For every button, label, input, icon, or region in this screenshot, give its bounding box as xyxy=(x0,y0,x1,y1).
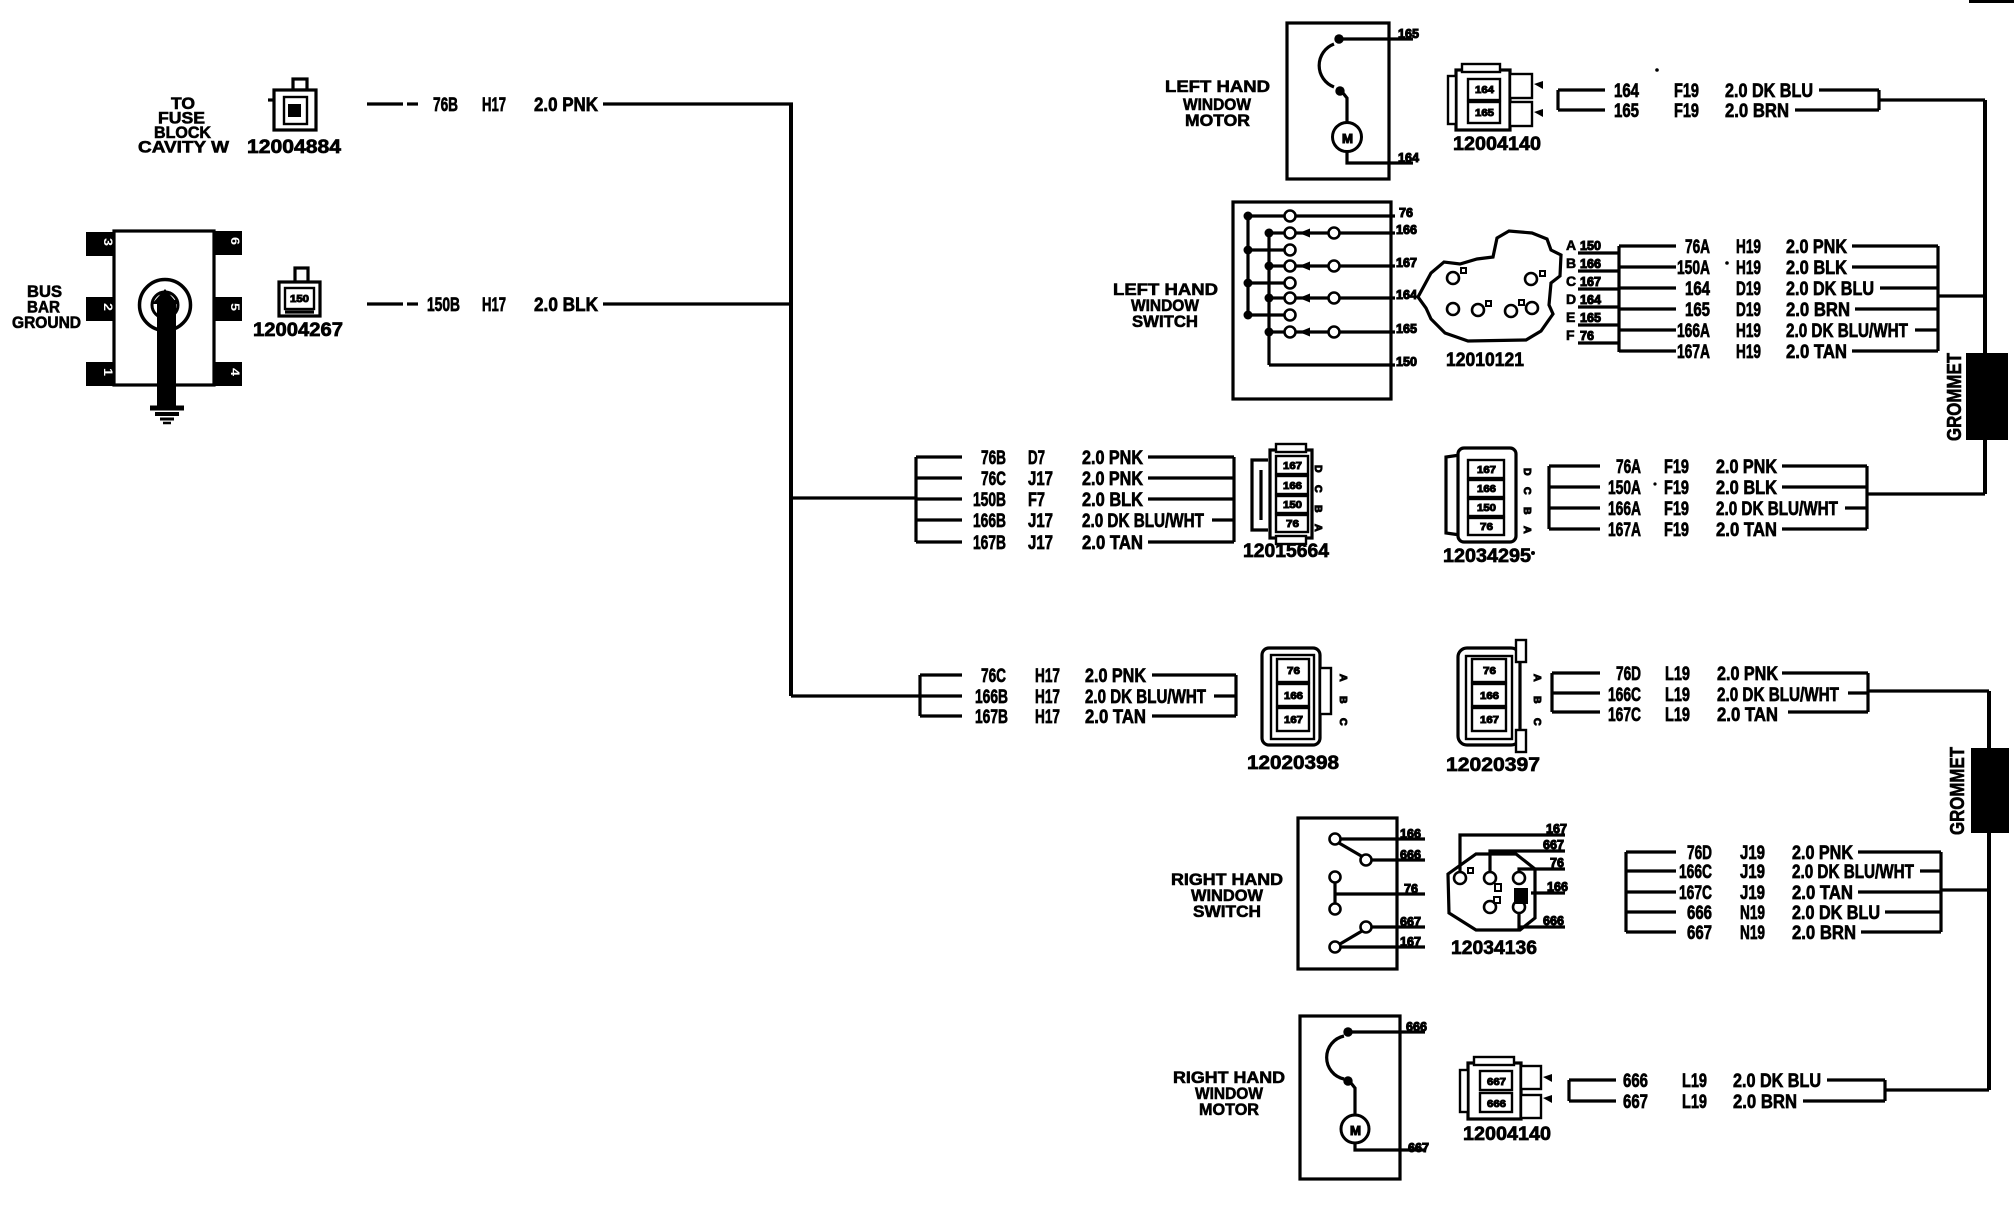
wire 150A F19 2.0 BLK xyxy=(1608,478,1867,499)
svg-text:H17: H17 xyxy=(1035,687,1060,708)
wire 165 F19 2.0 BRN xyxy=(1614,101,1879,122)
svg-text:L19: L19 xyxy=(1665,705,1690,726)
wire 164 D19 2.0 DK BLU xyxy=(1685,279,1938,300)
svg-text:2.0 BRN: 2.0 BRN xyxy=(1725,101,1789,122)
grommet lower xyxy=(1947,747,2009,835)
bus bar terminal 4 xyxy=(213,362,242,386)
svg-text:N19: N19 xyxy=(1740,903,1765,924)
wire 166C J19 2.0 DK BLU/WHT xyxy=(1679,862,1941,883)
svg-text:2.0 PNK: 2.0 PNK xyxy=(534,95,598,116)
svg-text:F19: F19 xyxy=(1664,457,1689,478)
svg-text:2.0 DK BLU: 2.0 DK BLU xyxy=(1733,1071,1821,1092)
wire 165 D19 2.0 BRN xyxy=(1685,300,1938,321)
svg-text:2.0 PNK: 2.0 PNK xyxy=(1082,469,1143,490)
svg-text:667: 667 xyxy=(1408,1140,1429,1155)
wire 4-way bracket to right trunk xyxy=(1867,492,1985,495)
svg-text:N19: N19 xyxy=(1740,923,1765,944)
wire 150B F7 2.0 BLK xyxy=(973,490,1234,511)
connector 12004884 xyxy=(247,79,341,158)
wire collector to lower right trunk bottom xyxy=(1885,1088,1989,1091)
svg-text:D7: D7 xyxy=(1028,448,1045,469)
svg-text:2.0 DK BLU: 2.0 DK BLU xyxy=(1786,279,1874,300)
svg-text:2.0 PNK: 2.0 PNK xyxy=(1082,448,1143,469)
svg-text:76: 76 xyxy=(1480,521,1493,533)
svg-text:F19: F19 xyxy=(1674,81,1699,102)
node pin E 165 xyxy=(1566,309,1619,325)
svg-text:165: 165 xyxy=(1614,101,1639,122)
svg-text:166: 166 xyxy=(1477,483,1496,495)
svg-text:166B: 166B xyxy=(975,687,1008,708)
svg-text:SWITCH: SWITCH xyxy=(1193,903,1261,921)
grommet upper xyxy=(1944,353,2008,441)
wire 164 F19 2.0 DK BLU xyxy=(1614,68,1879,102)
svg-text:164: 164 xyxy=(1614,81,1639,102)
svg-text:F: F xyxy=(1566,327,1575,343)
svg-text:A: A xyxy=(1521,526,1533,534)
svg-text:A: A xyxy=(1566,237,1576,253)
svg-text:2.0 DK BLU/WHT: 2.0 DK BLU/WHT xyxy=(1082,511,1204,532)
wire 667 L19 2.0 BRN xyxy=(1623,1092,1885,1113)
svg-text:666: 666 xyxy=(1406,1019,1427,1034)
wire 76A H19 2.0 PNK xyxy=(1685,237,1938,258)
node 3-way bracket left (12020397) xyxy=(1552,673,1600,712)
svg-text:2.0 PNK: 2.0 PNK xyxy=(1717,664,1778,685)
svg-text:2.0 DK BLU/WHT: 2.0 DK BLU/WHT xyxy=(1716,499,1838,520)
svg-text:166: 166 xyxy=(1547,879,1568,894)
svg-text:2.0 TAN: 2.0 TAN xyxy=(1786,342,1847,363)
svg-text:76: 76 xyxy=(1550,855,1564,870)
node 2-way bracket (left motor) xyxy=(1558,90,1605,110)
node pin F 76 xyxy=(1566,327,1619,343)
svg-text:2.0 PNK: 2.0 PNK xyxy=(1792,843,1853,864)
svg-text:C: C xyxy=(1566,273,1576,289)
svg-text:667: 667 xyxy=(1400,914,1421,929)
connector 12020397 xyxy=(1446,640,1543,776)
connector 12034295 xyxy=(1443,448,1533,567)
svg-text:165: 165 xyxy=(1580,310,1601,325)
svg-text:A: A xyxy=(1337,674,1349,682)
node LEFT HAND WINDOW MOTOR label xyxy=(1165,78,1270,130)
node pin B 166 xyxy=(1566,255,1619,271)
wire 76A F19 2.0 PNK xyxy=(1616,457,1867,478)
svg-text:166: 166 xyxy=(1283,480,1302,492)
svg-text:J19: J19 xyxy=(1740,843,1765,864)
wire 76B H17 2.0 PNK label row xyxy=(367,95,598,116)
svg-text:167: 167 xyxy=(1400,934,1421,949)
svg-text:F7: F7 xyxy=(1028,490,1045,511)
svg-text:2.0 DK BLU/WHT: 2.0 DK BLU/WHT xyxy=(1085,687,1206,708)
svg-text:76D: 76D xyxy=(1616,664,1641,685)
wire 167C L19 2.0 TAN xyxy=(1608,705,1868,726)
svg-text:667: 667 xyxy=(1487,1076,1506,1088)
svg-text:150A: 150A xyxy=(1608,478,1641,499)
connector 12010121 xyxy=(1418,231,1561,371)
svg-text:SWITCH: SWITCH xyxy=(1132,313,1198,331)
node 2-way collector (right motor) xyxy=(1883,1080,1886,1101)
svg-text:C: C xyxy=(1337,718,1349,726)
node LEFT HAND WINDOW SWITCH label xyxy=(1113,281,1218,331)
wire main trunk xyxy=(789,104,793,696)
svg-text:76: 76 xyxy=(1404,881,1418,896)
svg-text:76: 76 xyxy=(1287,665,1300,677)
svg-text:GROMMET: GROMMET xyxy=(1947,747,1969,835)
svg-text:2.0 PNK: 2.0 PNK xyxy=(1786,237,1847,258)
top edge artifact xyxy=(1969,0,2014,3)
svg-text:150: 150 xyxy=(1283,499,1302,511)
wire 150B H17 2.0 BLK label row xyxy=(367,295,598,316)
svg-text:76B: 76B xyxy=(981,448,1006,469)
svg-text:167: 167 xyxy=(1480,714,1499,726)
bus bar body xyxy=(114,231,214,385)
svg-text:2.0 TAN: 2.0 TAN xyxy=(1717,705,1778,726)
connector 12004267 xyxy=(253,268,343,341)
wire 76D J19 2.0 PNK xyxy=(1687,843,1941,864)
svg-text:2.0 DK BLU: 2.0 DK BLU xyxy=(1725,81,1813,102)
svg-text:167C: 167C xyxy=(1608,705,1641,726)
svg-text:167: 167 xyxy=(1580,274,1601,289)
svg-text:76: 76 xyxy=(1286,518,1299,530)
node 4-way bracket right xyxy=(1865,466,1868,529)
connector 12015664 xyxy=(1243,444,1535,562)
node 5-way bracket right xyxy=(1232,457,1235,542)
wire 666 L19 2.0 DK BLU xyxy=(1623,1071,1885,1092)
node pin A 150 xyxy=(1566,237,1619,253)
svg-text:B: B xyxy=(1312,505,1324,513)
svg-text:166B: 166B xyxy=(973,511,1006,532)
wire 166A F19 2.0 DK BLU/WHT xyxy=(1608,499,1867,520)
node BUS BAR GROUND label xyxy=(12,283,81,332)
svg-text:76B: 76B xyxy=(433,95,458,116)
svg-text:666: 666 xyxy=(1687,903,1712,924)
svg-text:2: 2 xyxy=(101,303,115,311)
svg-text:164: 164 xyxy=(1580,292,1602,307)
node 5-way bracket (RH switch) xyxy=(1626,852,1676,932)
svg-text:2.0 BRN: 2.0 BRN xyxy=(1792,923,1856,944)
svg-text:2.0 TAN: 2.0 TAN xyxy=(1082,533,1143,554)
svg-text:76: 76 xyxy=(1580,328,1594,343)
wire 667 N19 2.0 BRN xyxy=(1687,923,1941,944)
svg-text:D19: D19 xyxy=(1736,300,1761,321)
svg-text:666: 666 xyxy=(1623,1071,1648,1092)
svg-text:H17: H17 xyxy=(1035,707,1060,728)
svg-text:76D: 76D xyxy=(1687,843,1712,864)
svg-text:C: C xyxy=(1312,485,1324,493)
svg-text:B: B xyxy=(1566,255,1576,271)
svg-text:76: 76 xyxy=(1399,205,1413,220)
wire trunk branch to 3-way bracket xyxy=(791,694,920,697)
ground stem xyxy=(152,289,178,406)
svg-text:2.0 BRN: 2.0 BRN xyxy=(1786,300,1850,321)
wire 167A F19 2.0 TAN xyxy=(1608,520,1867,541)
svg-text:2.0 DK BLU/WHT: 2.0 DK BLU/WHT xyxy=(1786,321,1908,342)
svg-text:MOTOR: MOTOR xyxy=(1199,1101,1259,1119)
svg-text:167B: 167B xyxy=(975,707,1008,728)
svg-text:2.0 DK BLU: 2.0 DK BLU xyxy=(1792,903,1880,924)
svg-text:166: 166 xyxy=(1480,690,1499,702)
svg-text:167: 167 xyxy=(1284,714,1303,726)
svg-text:LEFT HAND: LEFT HAND xyxy=(1165,78,1270,96)
svg-text:CAVITY W: CAVITY W xyxy=(138,139,229,157)
svg-text:150: 150 xyxy=(290,293,309,305)
wire from 150B label to trunk xyxy=(603,302,791,305)
wire 5-way collector to lower right trunk xyxy=(1941,888,1989,891)
svg-text:D19: D19 xyxy=(1736,279,1761,300)
svg-text:166A: 166A xyxy=(1677,321,1710,342)
wire 166A H19 2.0 DK BLU/WHT xyxy=(1677,321,1938,342)
svg-text:1: 1 xyxy=(101,368,115,376)
connector 12004140 (left motor) xyxy=(1448,64,1543,155)
svg-text:165: 165 xyxy=(1396,321,1417,336)
svg-text:5: 5 xyxy=(228,303,242,311)
bus bar terminal 6 xyxy=(213,231,242,255)
svg-text:150A: 150A xyxy=(1677,258,1710,279)
svg-text:166: 166 xyxy=(1284,690,1303,702)
wire trunk branch to 5-way bracket xyxy=(791,496,916,499)
svg-text:164: 164 xyxy=(1475,84,1494,96)
node 2-way collector (left motor) xyxy=(1877,90,1880,110)
svg-text:167: 167 xyxy=(1283,460,1302,472)
svg-text:167B: 167B xyxy=(973,533,1006,554)
wire 76D L19 2.0 PNK xyxy=(1616,664,1868,685)
svg-text:76A: 76A xyxy=(1616,457,1641,478)
bus bar eyelet rings xyxy=(140,280,191,331)
wire 167C J19 2.0 TAN xyxy=(1679,883,1941,904)
svg-text:667: 667 xyxy=(1623,1092,1648,1113)
svg-text:667: 667 xyxy=(1543,837,1564,852)
svg-text:76: 76 xyxy=(1483,665,1496,677)
wire right trunk upper xyxy=(1983,100,1987,494)
svg-text:M: M xyxy=(1350,1123,1361,1138)
svg-text:B: B xyxy=(1521,507,1533,515)
svg-text:6: 6 xyxy=(228,237,242,245)
svg-text:167A: 167A xyxy=(1608,520,1641,541)
svg-text:150: 150 xyxy=(1396,354,1417,369)
svg-text:M: M xyxy=(1342,131,1353,146)
node pin bracket xyxy=(1619,246,1676,352)
wire 76B D7 2.0 PNK xyxy=(981,448,1234,469)
svg-text:J19: J19 xyxy=(1740,862,1765,883)
switch LH window switch xyxy=(1233,202,1395,399)
svg-text:L19: L19 xyxy=(1665,664,1690,685)
wire 150A H19 2.0 BLK xyxy=(1677,258,1938,279)
svg-text:2.0 BLK: 2.0 BLK xyxy=(1716,478,1777,499)
wire collector to right trunk top xyxy=(1879,98,1985,101)
svg-text:166C: 166C xyxy=(1679,862,1712,883)
svg-text:2.0 PNK: 2.0 PNK xyxy=(1085,666,1146,687)
svg-text:12010121: 12010121 xyxy=(1446,350,1524,371)
svg-text:D: D xyxy=(1521,468,1533,476)
svg-text:H19: H19 xyxy=(1736,258,1761,279)
wire 666 N19 2.0 DK BLU xyxy=(1687,903,1941,924)
svg-text:2.0 BLK: 2.0 BLK xyxy=(534,295,598,316)
svg-text:2.0 DK BLU/WHT: 2.0 DK BLU/WHT xyxy=(1717,685,1839,706)
wire collector to lower right trunk xyxy=(1868,689,1989,692)
svg-text:C: C xyxy=(1531,718,1543,726)
svg-text:2.0 BLK: 2.0 BLK xyxy=(1082,490,1143,511)
node 5-way collector (RH switch) xyxy=(1939,852,1942,932)
wire 76C H17 2.0 PNK xyxy=(981,666,1236,687)
svg-text:F19: F19 xyxy=(1664,520,1689,541)
node RIGHT HAND WINDOW MOTOR label xyxy=(1173,1069,1285,1119)
svg-text:J19: J19 xyxy=(1740,883,1765,904)
svg-text:12020397: 12020397 xyxy=(1446,755,1540,776)
svg-text:A: A xyxy=(1312,524,1324,532)
svg-text:666: 666 xyxy=(1400,847,1421,862)
wire 166C L19 2.0 DK BLU/WHT xyxy=(1608,685,1868,706)
wire 166B H17 2.0 DK BLU/WHT xyxy=(975,687,1236,708)
bus bar terminal 1 xyxy=(86,362,115,386)
svg-text:H17: H17 xyxy=(482,295,506,316)
svg-text:A: A xyxy=(1531,674,1543,682)
svg-text:C: C xyxy=(1521,487,1533,495)
connector 12004140 (right motor) xyxy=(1460,1057,1552,1145)
ground xyxy=(150,408,184,423)
node pin C 167 xyxy=(1566,273,1619,289)
wire 166B J17 2.0 DK BLU/WHT xyxy=(973,511,1234,532)
svg-text:12004140: 12004140 xyxy=(1453,134,1541,155)
svg-text:165: 165 xyxy=(1475,107,1494,119)
wire 6-way collector to right trunk xyxy=(1938,294,1985,297)
node 4-way bracket left xyxy=(1549,466,1600,529)
node 6-way collector xyxy=(1936,246,1939,351)
svg-text:76C: 76C xyxy=(981,666,1006,687)
svg-text:150: 150 xyxy=(1477,502,1496,514)
svg-text:150B: 150B xyxy=(427,295,460,316)
svg-text:E: E xyxy=(1566,309,1575,325)
svg-text:MOTOR: MOTOR xyxy=(1185,112,1250,130)
svg-text:666: 666 xyxy=(1487,1098,1506,1110)
svg-text:2.0 TAN: 2.0 TAN xyxy=(1716,520,1777,541)
svg-text:667: 667 xyxy=(1687,923,1712,944)
node 3-way bracket left xyxy=(920,675,962,716)
svg-text:12034136: 12034136 xyxy=(1451,938,1537,959)
svg-text:76C: 76C xyxy=(981,469,1006,490)
svg-text:J17: J17 xyxy=(1028,533,1053,554)
svg-text:L19: L19 xyxy=(1682,1092,1707,1113)
svg-text:12020398: 12020398 xyxy=(1247,753,1339,774)
svg-text:12034295: 12034295 xyxy=(1443,546,1531,567)
svg-text:166: 166 xyxy=(1580,256,1601,271)
svg-text:F19: F19 xyxy=(1674,101,1699,122)
wire right trunk lower xyxy=(1987,691,1991,1090)
svg-text:167: 167 xyxy=(1546,821,1567,836)
svg-text:2.0 BLK: 2.0 BLK xyxy=(1786,258,1847,279)
svg-text:2.0 TAN: 2.0 TAN xyxy=(1085,707,1146,728)
svg-text:167: 167 xyxy=(1396,255,1417,270)
svg-text:D: D xyxy=(1312,465,1324,473)
node 5-way bracket left xyxy=(916,457,962,542)
svg-text:76A: 76A xyxy=(1685,237,1710,258)
svg-text:12004140: 12004140 xyxy=(1463,1124,1551,1145)
svg-text:2.0 PNK: 2.0 PNK xyxy=(1716,457,1777,478)
svg-text:164: 164 xyxy=(1396,287,1418,302)
motor LH window motor xyxy=(1287,23,1413,179)
svg-text:L19: L19 xyxy=(1682,1071,1707,1092)
svg-text:J17: J17 xyxy=(1028,511,1053,532)
svg-text:150: 150 xyxy=(1580,238,1601,253)
svg-text:166: 166 xyxy=(1396,222,1417,237)
svg-text:H17: H17 xyxy=(482,95,506,116)
svg-text:12015664: 12015664 xyxy=(1243,541,1329,562)
svg-text:150B: 150B xyxy=(973,490,1006,511)
svg-text:166A: 166A xyxy=(1608,499,1641,520)
svg-text:166: 166 xyxy=(1400,826,1421,841)
motor RH window motor xyxy=(1300,1016,1425,1179)
svg-text:167: 167 xyxy=(1477,464,1496,476)
svg-text:2.0 BRN: 2.0 BRN xyxy=(1733,1092,1797,1113)
bus bar terminal 2 xyxy=(86,297,115,321)
wire 167B H17 2.0 TAN xyxy=(975,707,1236,728)
node TO FUSE BLOCK CAVITY W label xyxy=(138,95,229,157)
connector 12020398 xyxy=(1247,648,1349,774)
svg-text:F19: F19 xyxy=(1664,478,1689,499)
wire from 76B label to trunk xyxy=(603,102,793,105)
svg-text:B: B xyxy=(1337,696,1349,704)
node pin D 164 xyxy=(1566,291,1619,307)
svg-text:H19: H19 xyxy=(1736,342,1761,363)
svg-text:B: B xyxy=(1531,696,1543,704)
connector 12034136 xyxy=(1448,835,1565,959)
wire 167A H19 2.0 TAN xyxy=(1677,342,1938,363)
svg-text:12004884: 12004884 xyxy=(247,137,341,158)
svg-text:2.0 TAN: 2.0 TAN xyxy=(1792,883,1853,904)
svg-text:H19: H19 xyxy=(1736,321,1761,342)
svg-text:167C: 167C xyxy=(1679,883,1712,904)
svg-text:J17: J17 xyxy=(1028,469,1053,490)
svg-text:H19: H19 xyxy=(1736,237,1761,258)
bus bar terminal 3 xyxy=(86,232,115,256)
svg-text:165: 165 xyxy=(1685,300,1710,321)
svg-text:166C: 166C xyxy=(1608,685,1641,706)
svg-text:167A: 167A xyxy=(1677,342,1710,363)
svg-text:F19: F19 xyxy=(1664,499,1689,520)
svg-text:3: 3 xyxy=(101,238,115,246)
svg-text:H17: H17 xyxy=(1035,666,1060,687)
node 2-way bracket (right motor) xyxy=(1569,1080,1616,1101)
wire 167B J17 2.0 TAN xyxy=(973,533,1234,554)
svg-text:12004267: 12004267 xyxy=(253,320,343,341)
wire 76C J17 2.0 PNK xyxy=(981,469,1234,490)
svg-text:D: D xyxy=(1566,291,1576,307)
svg-text:GROMMET: GROMMET xyxy=(1944,353,1966,441)
node RIGHT HAND WINDOW SWITCH label xyxy=(1171,871,1283,921)
switch RH window switch xyxy=(1298,818,1425,969)
svg-text:L19: L19 xyxy=(1665,685,1690,706)
svg-text:GROUND: GROUND xyxy=(12,314,81,332)
svg-text:4: 4 xyxy=(228,368,242,376)
svg-text:666: 666 xyxy=(1543,913,1564,928)
svg-text:164: 164 xyxy=(1685,279,1710,300)
node 3-way bracket right xyxy=(1234,675,1237,716)
bus bar terminal 5 xyxy=(213,297,242,321)
svg-text:164: 164 xyxy=(1398,150,1420,165)
svg-text:2.0 DK BLU/WHT: 2.0 DK BLU/WHT xyxy=(1792,862,1914,883)
node 3-way collector right xyxy=(1866,673,1869,712)
svg-text:165: 165 xyxy=(1398,26,1419,41)
